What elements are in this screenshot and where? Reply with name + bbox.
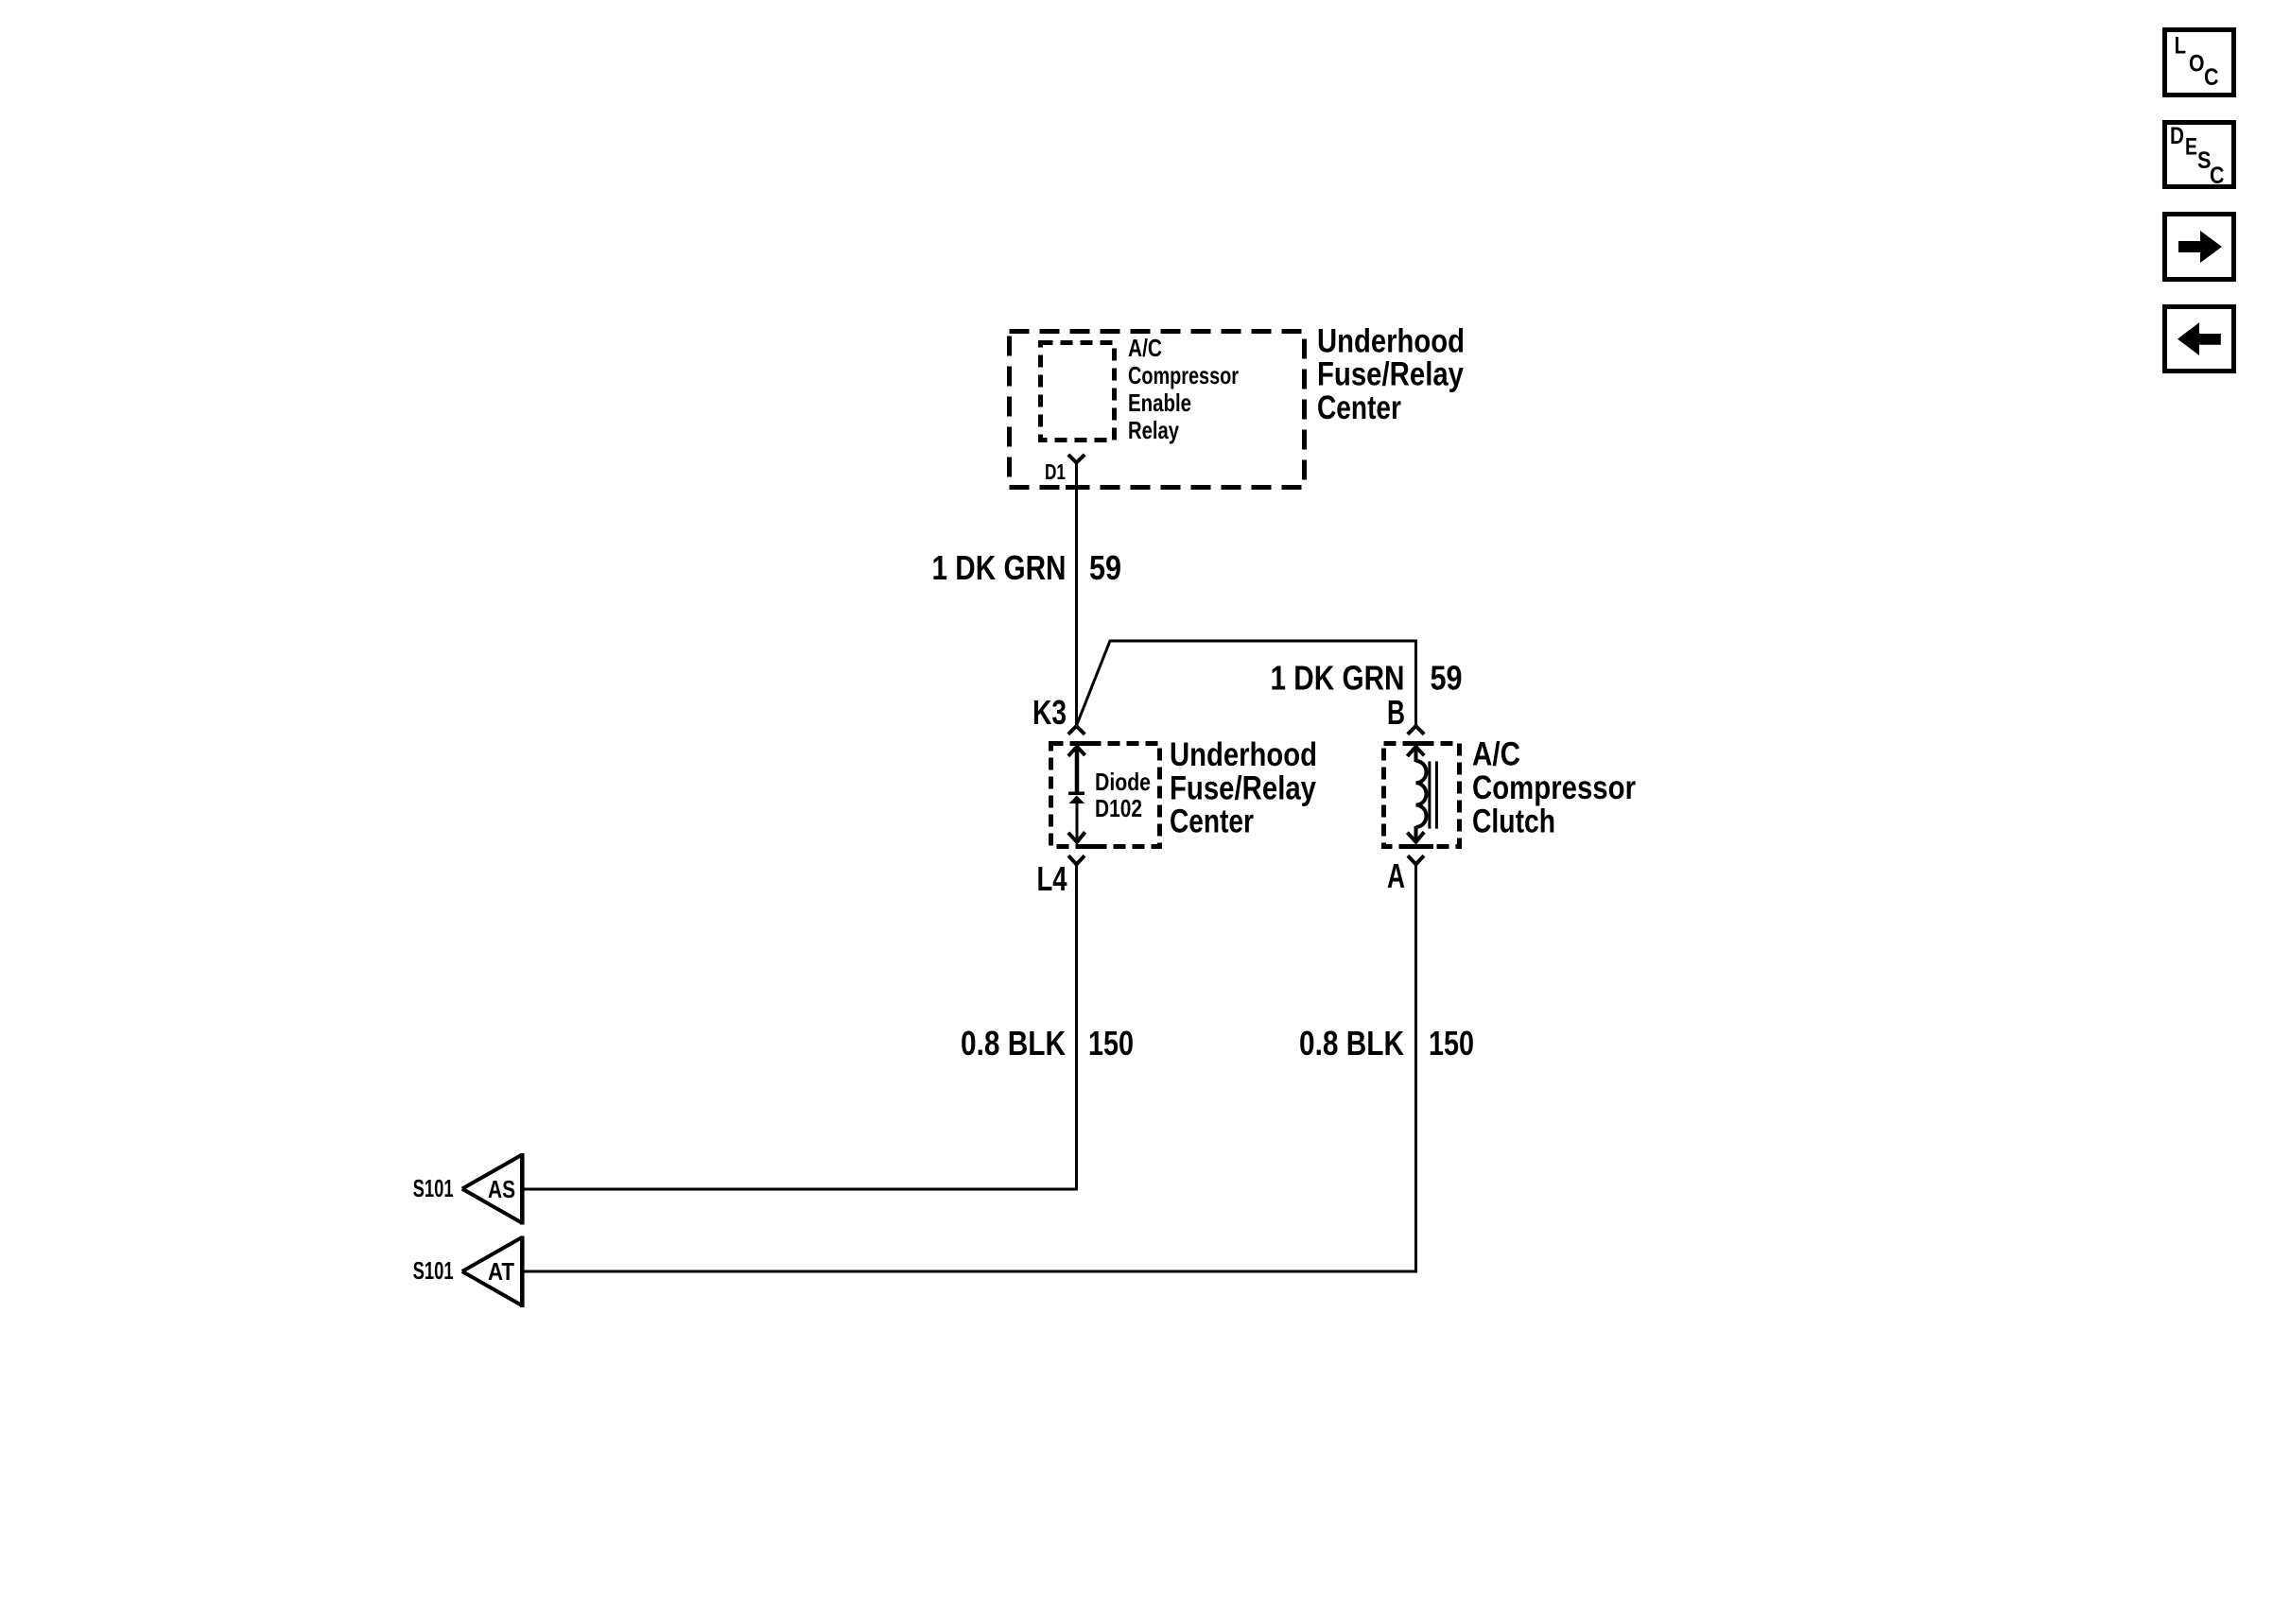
wire A to splice S101 (0.8 BLK) bbox=[524, 864, 1416, 1271]
svg-text:Center: Center bbox=[1317, 389, 1401, 426]
pin D1 label bbox=[1045, 459, 1066, 484]
off-page connector AT bbox=[462, 1236, 523, 1308]
diode D102 symbol bbox=[1068, 747, 1085, 842]
Underhood Fuse/Relay Center box (diode, dashed) bbox=[1051, 741, 1160, 849]
svg-text:59: 59 bbox=[1431, 659, 1463, 698]
svg-text:D102: D102 bbox=[1095, 794, 1142, 822]
svg-text:Underhood: Underhood bbox=[1317, 323, 1465, 360]
Underhood Fuse/Relay Center label (top) bbox=[1317, 323, 1465, 427]
svg-text:A/C: A/C bbox=[1472, 736, 1520, 773]
pin L4 connector bbox=[1068, 855, 1084, 864]
svg-text:Underhood: Underhood bbox=[1170, 736, 1317, 773]
pin A label bbox=[1387, 856, 1405, 895]
Underhood Fuse/Relay Center label (middle) bbox=[1170, 736, 1317, 840]
Underhood Fuse/Relay Center box (relay, dashed) bbox=[1010, 332, 1305, 491]
A/C compressor clutch coil bbox=[1407, 747, 1426, 842]
svg-text:1 DK GRN: 1 DK GRN bbox=[1271, 659, 1405, 698]
svg-text:C: C bbox=[2204, 64, 2219, 91]
pin B connector bbox=[1408, 726, 1424, 734]
pin A connector bbox=[1408, 855, 1424, 864]
circuit number 150 (right) bbox=[1429, 1024, 1474, 1063]
svg-text:Compressor: Compressor bbox=[1472, 769, 1636, 806]
svg-text:D1: D1 bbox=[1045, 459, 1066, 484]
nav button LOC bbox=[2165, 30, 2234, 95]
svg-text:0.8 BLK: 0.8 BLK bbox=[961, 1024, 1066, 1063]
nav button next (right arrow) bbox=[2165, 215, 2234, 280]
svg-text:59: 59 bbox=[1089, 548, 1121, 587]
wire L4 to splice S101 (0.8 BLK) bbox=[524, 864, 1077, 1189]
svg-text:Relay: Relay bbox=[1128, 416, 1179, 444]
circuit number 150 (left) bbox=[1088, 1024, 1134, 1063]
pin K3 connector bbox=[1068, 726, 1084, 734]
wire branch K3 to B bbox=[1077, 641, 1416, 726]
svg-text:150: 150 bbox=[1088, 1024, 1134, 1063]
pin B label bbox=[1387, 693, 1405, 732]
splice S101 label (AS) bbox=[413, 1174, 454, 1202]
splice S101 label (AT) bbox=[413, 1256, 454, 1285]
off-page connector AS label bbox=[488, 1175, 515, 1203]
circuit number 59 (branch) bbox=[1431, 659, 1463, 698]
nav button previous (left arrow) bbox=[2165, 307, 2234, 371]
svg-text:E: E bbox=[2185, 134, 2197, 161]
off-page connector AS bbox=[462, 1153, 523, 1225]
pin K3 label bbox=[1032, 693, 1067, 732]
A/C Compressor Enable Relay label bbox=[1128, 334, 1239, 444]
A/C Compressor Enable Relay box (dashed) bbox=[1041, 343, 1115, 441]
off-page connector AT label bbox=[488, 1257, 514, 1286]
svg-text:L: L bbox=[2175, 33, 2186, 60]
svg-text:O: O bbox=[2189, 51, 2205, 78]
svg-text:Clutch: Clutch bbox=[1472, 803, 1555, 839]
nav button DESC bbox=[2165, 123, 2234, 190]
svg-text:Compressor: Compressor bbox=[1128, 361, 1239, 389]
circuit number 59 (upper) bbox=[1089, 548, 1121, 587]
svg-text:S101: S101 bbox=[413, 1256, 454, 1285]
pin L4 label bbox=[1037, 859, 1067, 898]
wire label 0.8 BLK (left) bbox=[961, 1024, 1066, 1063]
A/C Compressor Clutch label bbox=[1472, 736, 1636, 840]
svg-text:150: 150 bbox=[1429, 1024, 1474, 1063]
svg-text:AS: AS bbox=[488, 1175, 515, 1203]
svg-text:Diode: Diode bbox=[1095, 768, 1151, 796]
svg-text:D: D bbox=[2170, 123, 2184, 149]
pin D1 connector bbox=[1068, 455, 1084, 462]
svg-text:S101: S101 bbox=[413, 1174, 454, 1202]
svg-text:B: B bbox=[1387, 693, 1405, 732]
svg-text:C: C bbox=[2210, 163, 2225, 189]
svg-text:A/C: A/C bbox=[1128, 334, 1162, 362]
svg-text:1 DK GRN: 1 DK GRN bbox=[932, 548, 1067, 587]
svg-text:Fuse/Relay: Fuse/Relay bbox=[1317, 356, 1464, 393]
wire label 1 DK GRN (upper) bbox=[932, 548, 1067, 587]
wire label 1 DK GRN (branch) bbox=[1271, 659, 1405, 698]
svg-text:0.8 BLK: 0.8 BLK bbox=[1299, 1024, 1404, 1063]
svg-text:Center: Center bbox=[1170, 803, 1254, 840]
wire D1 to K3 bbox=[1075, 461, 1078, 726]
svg-text:L4: L4 bbox=[1037, 859, 1067, 898]
svg-text:Enable: Enable bbox=[1128, 389, 1191, 417]
diode D102 label bbox=[1095, 768, 1151, 822]
svg-text:K3: K3 bbox=[1032, 693, 1067, 732]
svg-text:Fuse/Relay: Fuse/Relay bbox=[1170, 769, 1316, 806]
clutch plates bbox=[1430, 761, 1437, 828]
svg-text:AT: AT bbox=[488, 1257, 514, 1286]
wire label 0.8 BLK (right) bbox=[1299, 1024, 1404, 1063]
svg-text:A: A bbox=[1387, 856, 1405, 895]
A/C Compressor Clutch box (dashed) bbox=[1384, 741, 1460, 849]
